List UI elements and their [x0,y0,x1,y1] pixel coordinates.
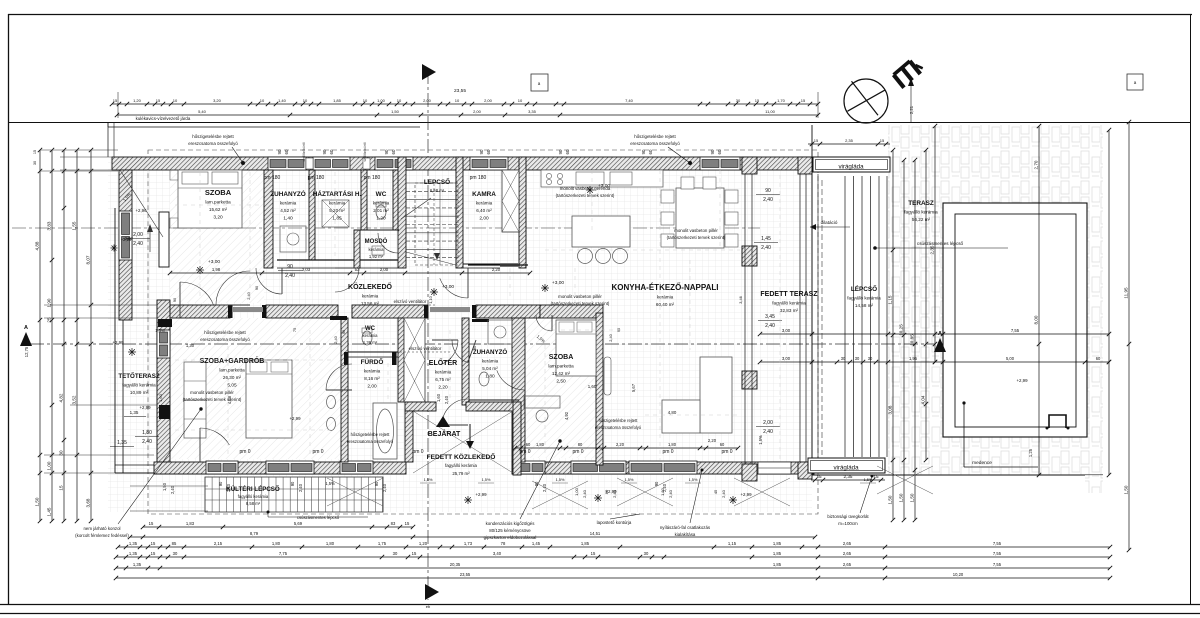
svg-text:7,40: 7,40 [625,98,634,103]
svg-text:WC: WC [365,326,376,332]
svg-text:7,55: 7,55 [993,562,1002,567]
svg-text:30: 30 [33,161,37,165]
svg-text:2,00: 2,00 [473,109,482,114]
svg-text:4,52 m²: 4,52 m² [280,208,296,213]
svg-text:csúszásmentes lépcső: csúszásmentes lépcső [297,515,340,520]
svg-text:90: 90 [290,481,295,486]
svg-text:1,20: 1,20 [419,541,428,546]
svg-text:2,40: 2,40 [226,483,231,492]
svg-text:1,5%: 1,5% [482,477,491,482]
svg-text:1,36 m²: 1,36 m² [363,340,378,345]
svg-text:m=100cm: m=100cm [838,521,858,526]
svg-text:90: 90 [322,149,327,154]
svg-text:2,40: 2,40 [542,483,547,492]
svg-text:10: 10 [173,98,178,103]
svg-text:2,40: 2,40 [662,483,667,492]
svg-text:SZOBA: SZOBA [549,354,574,361]
svg-text:lam.parketta: lam.parketta [548,364,574,369]
svg-text:kulékavics-vízelvezető járda: kulékavics-vízelvezető járda [136,116,191,121]
svg-text:90: 90 [277,149,282,154]
svg-text:1,85: 1,85 [581,541,590,546]
svg-text:1,50: 1,50 [35,497,40,506]
svg-text:10: 10 [518,98,523,103]
svg-text:kerámia: kerámia [364,369,381,374]
svg-text:2,65: 2,65 [843,541,852,546]
svg-text:2,40: 2,40 [582,489,587,498]
svg-text:1,00: 1,00 [47,461,52,470]
svg-text:ereszcsatorna összefolyó: ereszcsatorna összefolyó [347,439,394,444]
svg-text:32,83 m²: 32,83 m² [780,308,799,313]
svg-text:7,55: 7,55 [993,541,1002,546]
svg-text:1,5%: 1,5% [155,328,165,333]
svg-text:TERASZ: TERASZ [908,200,934,207]
svg-text:1,85: 1,85 [773,551,782,556]
svg-text:80/125 kéménycsöve: 80/125 kéménycsöve [489,528,531,533]
svg-text:hőszigetelésbe rejtett: hőszigetelésbe rejtett [634,134,676,139]
svg-text:90: 90 [374,481,379,486]
svg-text:15: 15 [405,521,410,526]
svg-text:1,85: 1,85 [773,541,782,546]
svg-text:pm 180: pm 180 [264,175,281,181]
svg-text:kerámia: kerámia [373,201,390,206]
svg-text:pm 0: pm 0 [412,449,423,455]
svg-text:30: 30 [393,551,398,556]
svg-text:pm 0: pm 0 [572,449,583,455]
svg-text:eb: eb [426,604,431,609]
svg-text:1,5%: 1,5% [556,477,565,482]
svg-text:60: 60 [648,149,653,154]
svg-text:90: 90 [218,481,223,486]
svg-text:4,92: 4,92 [564,411,569,420]
svg-text:3,08: 3,08 [888,405,893,414]
svg-text:ZUHANYZÓ: ZUHANYZÓ [473,348,508,356]
svg-text:medence: medence [972,460,992,466]
svg-text:kialakítása: kialakítása [675,532,696,537]
svg-text:ereszcsatorna összefolyó: ereszcsatorna összefolyó [630,141,680,146]
svg-text:10: 10 [303,98,308,103]
svg-text:1,92 m²: 1,92 m² [369,254,384,259]
svg-text:30: 30 [855,356,860,361]
svg-text:1,20: 1,20 [133,98,142,103]
svg-text:85: 85 [172,541,177,546]
svg-text:1,80: 1,80 [272,541,281,546]
svg-text:3,46: 3,46 [738,296,743,304]
svg-text:1,50: 1,50 [162,482,167,491]
svg-text:+2,99: +2,99 [475,492,487,497]
svg-text:14,58 m²: 14,58 m² [855,303,874,308]
svg-text:1,45: 1,45 [532,541,541,546]
svg-text:2,40: 2,40 [721,489,726,498]
svg-text:1,75: 1,75 [378,541,387,546]
svg-text:78: 78 [501,541,506,546]
svg-text:12,75: 12,75 [24,346,29,357]
svg-text:7,55: 7,55 [1011,328,1020,333]
svg-text:1,70: 1,70 [777,98,786,103]
svg-text:23,55: 23,55 [460,572,471,577]
svg-text:8,00: 8,00 [1034,315,1039,324]
svg-text:1,5%: 1,5% [689,477,698,482]
svg-text:1,60: 1,60 [436,393,441,402]
svg-text:TETŐTERASZ: TETŐTERASZ [118,373,159,380]
svg-text:1,45: 1,45 [47,507,52,516]
svg-text:1,5%: 1,5% [325,481,335,486]
svg-text:60: 60 [391,149,396,154]
svg-text:2,20: 2,20 [438,385,448,391]
svg-text:2,40: 2,40 [612,489,617,498]
svg-text:KÜLTÉRI LÉPCSŐ: KÜLTÉRI LÉPCSŐ [226,485,280,493]
svg-text:pm 180: pm 180 [364,175,381,181]
svg-text:pm 180: pm 180 [470,175,487,181]
svg-text:ereszcsatorna összefolyó: ereszcsatorna összefolyó [188,141,238,146]
svg-text:2,40: 2,40 [298,483,303,492]
svg-text:hőszigetelésbe rejtett: hőszigetelésbe rejtett [204,330,246,335]
svg-text:fagyálló kerámia: fagyálló kerámia [445,463,478,468]
svg-text:2,40: 2,40 [142,439,152,445]
svg-text:6,58 m²: 6,58 m² [430,188,445,193]
svg-text:2,40: 2,40 [763,197,773,203]
svg-text:10: 10 [363,98,368,103]
svg-text:90: 90 [765,188,771,194]
svg-text:15: 15 [33,150,37,154]
svg-text:3,40: 3,40 [493,551,502,556]
svg-text:10,89 m²: 10,89 m² [130,390,149,395]
svg-text:30: 30 [736,98,741,103]
svg-text:7,55: 7,55 [993,551,1002,556]
svg-text:12,42 m²: 12,42 m² [552,371,571,376]
svg-text:60: 60 [565,149,570,154]
svg-text:90: 90 [710,149,715,154]
svg-text:2,00: 2,00 [380,267,389,272]
svg-text:15: 15 [755,98,760,103]
svg-text:fagyálló kerámia: fagyálló kerámia [772,301,806,306]
svg-text:6,40 m²: 6,40 m² [476,208,492,213]
svg-text:60: 60 [1096,356,1101,361]
svg-text:pm 0: pm 0 [662,449,673,455]
svg-text:LEPCSŐ: LEPCSŐ [424,177,450,186]
svg-text:LÉPCSŐ: LÉPCSŐ [851,284,877,293]
svg-text:1,90: 1,90 [47,298,52,307]
svg-text:2,40: 2,40 [382,483,387,492]
svg-text:1,60: 1,60 [158,393,163,402]
svg-text:4,88: 4,88 [227,395,232,404]
svg-text:1,35: 1,35 [129,551,138,556]
svg-text:15: 15 [412,551,417,556]
svg-text:KONYHA-ÉTKEZŐ-NAPPALI: KONYHA-ÉTKEZŐ-NAPPALI [612,283,719,292]
svg-text:virágláda: virágláda [833,465,859,472]
svg-text:szellőzőkürtő: szellőzőkürtő [302,142,306,161]
svg-text:pm 0: pm 0 [721,449,732,455]
svg-text:biztonsági üvegkorlát: biztonsági üvegkorlát [827,514,869,519]
svg-text:1,45: 1,45 [761,236,771,242]
svg-text:3,83: 3,83 [47,221,52,230]
svg-text:BEJÁRAT: BEJÁRAT [428,429,461,438]
svg-text:1,5%: 1,5% [625,477,634,482]
svg-text:1,15: 1,15 [728,541,737,546]
svg-text:60: 60 [720,442,725,447]
svg-text:60: 60 [717,149,722,154]
svg-text:MOSDÓ: MOSDÓ [365,237,388,245]
svg-text:1,35: 1,35 [129,541,138,546]
svg-text:30: 30 [59,450,64,456]
svg-text:4,82: 4,82 [59,393,64,402]
svg-text:SZOBA+GARDRÓB: SZOBA+GARDRÓB [200,356,265,365]
svg-text:10: 10 [397,98,402,103]
svg-text:+3,00: +3,00 [598,183,610,189]
svg-text:83: 83 [391,521,396,526]
svg-text:8,58 m²: 8,58 m² [246,501,261,506]
svg-text:kerámia: kerámia [482,359,499,364]
svg-text:2,65: 2,65 [843,562,852,567]
svg-text:2,00: 2,00 [479,216,489,222]
svg-text:kerámia: kerámia [657,295,674,300]
svg-text:15: 15 [814,138,819,143]
svg-text:13,56 m²: 13,56 m² [361,301,380,306]
svg-text:53: 53 [355,267,360,272]
svg-text:gipszkarton eldobozolással: gipszkarton eldobozolással [484,535,537,540]
svg-text:30: 30 [644,551,649,556]
svg-text:25,79 m²: 25,79 m² [452,471,470,476]
svg-text:ereszcsatorna összefolyó: ereszcsatorna összefolyó [595,425,642,430]
svg-text:kerámia: kerámia [280,201,297,206]
svg-text:kerámia: kerámia [435,370,452,375]
svg-text:+2,99: +2,99 [289,416,301,421]
svg-text:15: 15 [151,541,156,546]
svg-text:60: 60 [329,149,334,154]
svg-text:KÖZLEKEDŐ: KÖZLEKEDŐ [348,282,393,291]
svg-text:1,85: 1,85 [333,98,342,103]
svg-text:2,15: 2,15 [214,541,223,546]
svg-text:45: 45 [713,489,718,494]
svg-text:kerámia: kerámia [363,333,379,338]
svg-text:1,25: 1,25 [1028,448,1033,457]
svg-text:nyílászáró-fal csatlakozás: nyílászáró-fal csatlakozás [660,525,711,530]
svg-text:fagyálló kerámia: fagyálló kerámia [122,383,156,388]
svg-text:1,40: 1,40 [283,216,293,222]
svg-text:pm 180: pm 180 [308,175,325,181]
svg-text:1,85: 1,85 [332,216,342,222]
svg-text:2,40: 2,40 [668,489,673,498]
svg-text:30: 30 [841,356,846,361]
svg-text:dilatáció: dilatáció [821,220,838,225]
svg-text:HÁZTARTÁSI H.: HÁZTARTÁSI H. [313,189,362,198]
svg-text:FEDETT KÖZLEKEDŐ: FEDETT KÖZLEKEDŐ [427,452,496,461]
svg-text:1,98: 1,98 [212,267,221,272]
svg-text:A: A [24,325,28,331]
svg-text:1,80: 1,80 [485,374,495,380]
svg-text:+2,99: +2,99 [139,405,151,410]
svg-text:2,20: 2,20 [492,267,501,272]
svg-text:1,50: 1,50 [899,493,904,502]
svg-text:80: 80 [604,489,609,494]
svg-text:3,00: 3,00 [782,328,791,333]
svg-text:8,79: 8,79 [250,531,259,536]
svg-text:15: 15 [59,485,64,491]
svg-text:14,51: 14,51 [590,531,601,536]
svg-text:1,80: 1,80 [142,430,152,436]
svg-text:30: 30 [173,551,178,556]
svg-text:pm 0: pm 0 [239,449,250,455]
svg-text:7,75: 7,75 [279,551,288,556]
svg-text:kerámia: kerámia [476,201,493,206]
svg-text:2,20: 2,20 [616,442,625,447]
svg-text:2,50: 2,50 [556,379,566,385]
svg-text:monolit vasbeton pillér: monolit vasbeton pillér [190,390,234,395]
svg-text:5,04 m²: 5,04 m² [482,366,498,371]
svg-text:2,40: 2,40 [333,335,338,343]
svg-text:1,50: 1,50 [1124,485,1129,494]
svg-text:15: 15 [591,551,596,556]
svg-text:1,30: 1,30 [186,343,195,348]
svg-text:FÜRDŐ: FÜRDŐ [361,357,384,366]
svg-text:(korcolt fémlemez fedéssel): (korcolt fémlemez fedéssel) [75,533,129,538]
svg-text:3,52: 3,52 [72,395,77,404]
svg-text:15: 15 [156,98,161,103]
svg-text:monolit vasbeton pillér: monolit vasbeton pillér [674,228,718,233]
svg-text:2,00: 2,00 [484,98,493,103]
svg-text:+3,00: +3,00 [442,284,454,290]
svg-text:fagyálló kerámia: fagyálló kerámia [847,296,881,301]
svg-text:lam.parketta: lam.parketta [219,368,245,373]
svg-text:+2,96: +2,96 [135,208,147,213]
svg-text:+2,99: +2,99 [1016,378,1028,383]
svg-text:90: 90 [534,481,539,486]
svg-text:SZOBA: SZOBA [205,188,232,197]
svg-text:+2,99: +2,99 [112,340,124,345]
svg-text:15: 15 [816,474,822,479]
svg-text:10,20: 10,20 [953,572,964,577]
svg-text:15: 15 [151,551,156,556]
svg-text:pm 0: pm 0 [519,449,530,455]
svg-text:1,95: 1,95 [909,356,918,361]
svg-text:1,20: 1,20 [376,216,386,222]
svg-text:elszívó ventilátor: elszívó ventilátor [409,346,442,351]
svg-text:1,80: 1,80 [326,541,335,546]
svg-text:5,67: 5,67 [631,383,636,392]
svg-text:2,40: 2,40 [444,395,449,404]
svg-text:2,21: 2,21 [909,105,914,114]
svg-text:1,55: 1,55 [72,221,77,230]
svg-text:2,03: 2,03 [302,267,311,272]
svg-text:2,35: 2,35 [930,245,935,254]
svg-text:monolit vasbeton pillér: monolit vasbeton pillér [558,294,602,299]
svg-text:lapostető kontúrja: lapostető kontúrja [597,520,632,525]
svg-text:1,5%: 1,5% [758,435,763,445]
svg-text:11,00: 11,00 [765,109,775,114]
svg-text:1,80: 1,80 [668,442,677,447]
svg-text:+2,99: +2,99 [121,237,132,242]
svg-text:30: 30 [868,356,873,361]
svg-text:(tartószerkezeti tervek szerin: (tartószerkezeti tervek szerint) [551,301,610,306]
svg-text:60: 60 [284,149,289,154]
svg-text:2,40: 2,40 [761,245,771,251]
svg-text:1,00: 1,00 [377,98,386,103]
svg-text:2,35: 2,35 [844,474,853,479]
svg-text:15,62 m²: 15,62 m² [209,207,228,212]
svg-text:1,80: 1,80 [536,442,545,447]
svg-text:90: 90 [479,149,484,154]
svg-text:nem járható konzol: nem járható konzol [83,526,120,531]
svg-text:2,40: 2,40 [285,273,295,279]
svg-text:kondenzációs kigőzölgés: kondenzációs kigőzölgés [486,521,536,526]
svg-text:26,30 m²: 26,30 m² [223,375,242,380]
svg-text:1,35: 1,35 [130,410,139,415]
svg-text:2,40: 2,40 [765,323,775,329]
svg-text:1,50: 1,50 [910,493,915,502]
svg-text:2,65: 2,65 [843,551,852,556]
svg-text:(tartószerkezeti tervek szerin: (tartószerkezeti tervek szerint) [667,235,726,240]
svg-text:4,88: 4,88 [35,241,40,250]
svg-text:15: 15 [149,521,154,526]
svg-text:8,16 m²: 8,16 m² [364,376,380,381]
svg-text:1,00: 1,00 [574,487,579,496]
svg-text:FEDETT TERASZ: FEDETT TERASZ [760,291,818,298]
svg-text:fagyálló kerámia: fagyálló kerámia [904,210,938,215]
svg-text:virágláda: virágláda [838,164,864,171]
svg-text:1,35: 1,35 [117,440,127,446]
svg-text:3,20: 3,20 [213,98,222,103]
svg-text:hőszigetelésbe rejtett: hőszigetelésbe rejtett [351,432,391,437]
svg-text:10,85: 10,85 [910,334,915,346]
svg-text:1,10: 1,10 [428,295,433,303]
svg-text:5,00: 5,00 [1006,356,1015,361]
svg-text:4,80: 4,80 [668,410,677,415]
svg-text:1,60: 1,60 [588,384,597,389]
svg-text:15: 15 [113,98,118,103]
svg-text:ereszcsatorna összefolyó: ereszcsatorna összefolyó [200,337,250,342]
svg-text:1,83: 1,83 [186,521,195,526]
svg-text:lam.parketta: lam.parketta [205,200,231,205]
svg-text:60: 60 [526,442,531,447]
svg-text:8,07: 8,07 [86,255,91,264]
svg-text:ZUHANYZÓ: ZUHANYZÓ [270,189,306,198]
svg-text:1,50: 1,50 [391,109,400,114]
svg-text:10: 10 [260,98,265,103]
svg-text:23,55: 23,55 [454,88,466,94]
svg-text:5,05: 5,05 [227,383,237,389]
svg-text:3,35: 3,35 [528,109,537,114]
svg-text:3,45: 3,45 [765,314,775,320]
svg-text:2,00: 2,00 [763,420,773,426]
svg-text:elszívó ventilátor: elszívó ventilátor [394,299,427,304]
svg-text:(tartószerkezeti tervek szerin: (tartószerkezeti tervek szerint) [183,397,242,402]
svg-text:KAMRA: KAMRA [472,191,496,198]
svg-text:2,40: 2,40 [170,485,175,494]
svg-text:3,68: 3,68 [86,498,91,507]
svg-text:hőszigetelésbe rejtett: hőszigetelésbe rejtett [599,418,639,423]
svg-text:3,00: 3,00 [782,356,791,361]
svg-text:2,01 m²: 2,01 m² [373,208,389,213]
svg-text:90: 90 [558,149,563,154]
svg-text:60,40 m²: 60,40 m² [656,302,675,307]
svg-text:20,35: 20,35 [450,562,461,567]
svg-text:2,00: 2,00 [423,98,432,103]
svg-text:15: 15 [880,138,885,143]
svg-text:5,20 m²: 5,20 m² [329,208,345,213]
svg-text:6,75 m²: 6,75 m² [435,377,451,382]
svg-text:ELŐTÉR: ELŐTÉR [429,358,457,367]
svg-text:60: 60 [486,149,491,154]
svg-text:5,69: 5,69 [294,521,303,526]
svg-text:kerámia: kerámia [362,294,379,299]
svg-text:1,5%: 1,5% [424,477,433,482]
svg-text:2,00: 2,00 [367,384,377,390]
svg-text:szellőzőkürtő: szellőzőkürtő [363,142,367,161]
svg-text:(tartószerkezeti tervek szerin: (tartószerkezeti tervek szerint) [556,193,615,198]
svg-text:90: 90 [287,264,293,270]
svg-text:10: 10 [455,98,460,103]
svg-text:2,40: 2,40 [763,429,773,435]
svg-text:1,40: 1,40 [278,98,287,103]
